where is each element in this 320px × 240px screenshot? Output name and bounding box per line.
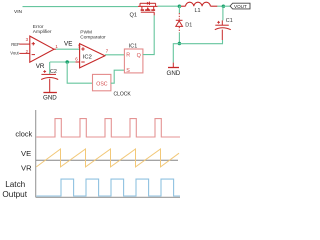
node junction L1/C1/VOUT [222,4,226,8]
svg-text:VR: VR [21,164,32,173]
svg-text:C1: C1 [226,18,233,24]
capacitor C2 [41,70,58,92]
capacitor C1 [215,20,231,40]
latch output waveform [36,179,180,196]
svg-text:PWM: PWM [80,29,92,35]
wire IC2 out to IC1 R [105,54,125,56]
latch IC1 box [124,49,142,73]
VR sawtooth waveform [36,149,179,167]
node junction VR [65,60,69,64]
ground symbol C2 [43,92,57,94]
net flag VOUT [230,3,250,9]
wire C1 to rail [222,40,224,44]
svg-text:VOUT: VOUT [234,4,247,9]
svg-text:1: 1 [55,44,58,49]
svg-text:Q1: Q1 [130,13,137,19]
dashed current path below D1 [178,27,180,33]
node junction D1/rail [178,42,182,46]
svg-text:Error: Error [33,24,44,30]
svg-text:OSC: OSC [96,81,107,87]
node VE wire [56,48,80,50]
oscillator OSC box [93,74,111,90]
svg-text:R: R [126,53,130,59]
svg-text:S: S [126,68,130,74]
wire D1 to ground rail [178,33,180,44]
wire VIN to Q1 [23,6,139,8]
wire IC1 Q to Q1 gate [143,15,154,54]
waveform axis horizontal [36,196,180,198]
wire L1 to VOUT node [217,5,223,7]
svg-text:VIN: VIN [14,9,23,15]
wire VR junction to OSC [67,62,92,83]
svg-text:VE: VE [21,149,31,158]
ground symbol right [172,63,174,68]
svg-text:3: 3 [26,37,29,42]
node VR wire [50,61,76,63]
svg-text:Q: Q [137,53,141,59]
svg-text:CLOCK: CLOCK [114,91,132,97]
svg-text:Comparator: Comparator [80,35,106,41]
svg-text:IC2: IC2 [83,54,92,60]
diode D1 [176,20,183,26]
transistor Q1 [138,2,158,16]
wire VOUT node down to C1 [222,6,224,20]
wire Q1 drain to node [158,5,180,7]
svg-text:L1: L1 [195,8,201,14]
svg-text:clock: clock [15,130,32,139]
waveform axis vertical [35,110,37,197]
ground rail wire [173,44,223,63]
svg-text:Output: Output [2,190,27,199]
svg-text:D1: D1 [185,22,192,28]
svg-text:Vout: Vout [10,51,19,56]
dashed current path above D1 [178,13,180,20]
wire VR node down to C2 [49,62,51,74]
svg-text:IC1: IC1 [129,44,137,50]
op-amp error amplifier [19,36,56,62]
svg-text:GND: GND [43,94,57,101]
svg-text:VR: VR [36,63,45,70]
wire OSC to IC1 S [111,70,125,83]
clock waveform [36,119,180,137]
wire node down to D1 [178,6,180,13]
inductor L1 [181,2,217,6]
wire node to L1 [179,5,181,7]
svg-text:GND: GND [167,70,181,77]
svg-text:C2: C2 [50,69,57,75]
VE level line [36,159,178,161]
svg-text:REF: REF [11,42,20,47]
svg-text:Latch: Latch [5,180,25,189]
svg-text:Amplifier: Amplifier [33,29,52,35]
svg-text:7: 7 [106,49,109,54]
wire node to VOUT flag [223,5,230,7]
svg-text:6: 6 [75,57,78,62]
node junction Q1/L1/D1 [178,4,182,8]
svg-text:VE: VE [64,41,72,48]
comparator IC2 [75,44,105,68]
